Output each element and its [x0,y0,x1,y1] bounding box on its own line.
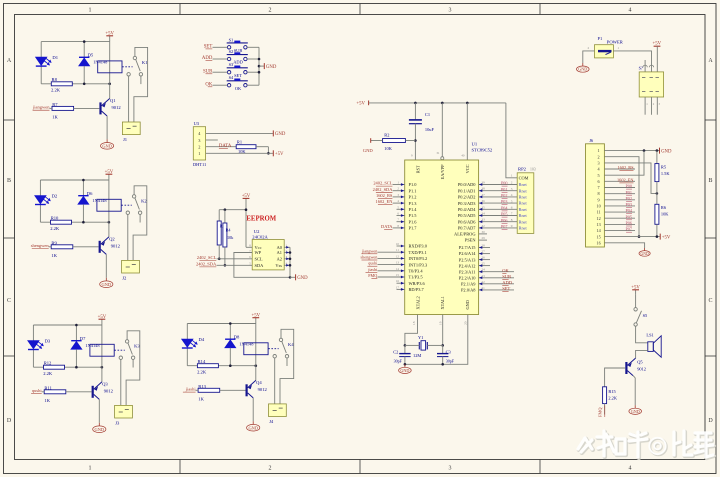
svg-text:jiashi: jiashi [185,387,196,392]
svg-text:17: 17 [396,285,400,289]
svg-text:P1.3: P1.3 [409,201,418,206]
resistor R1 10K [236,145,256,149]
svg-text:INT0/P3.2: INT0/P3.2 [409,256,428,261]
ground J6 pin1 [659,148,661,154]
svg-text:P0.3/AD3: P0.3/AD3 [458,201,476,206]
svg-text:J2: J2 [122,275,127,280]
svg-text:GND: GND [102,282,112,287]
svg-text:D7: D7 [80,336,86,341]
wire J6 pin2 to +5V bus [604,157,639,237]
svg-text:T1/P3.5: T1/P3.5 [409,275,424,280]
svg-text:D2: D2 [52,193,58,198]
svg-text:P2.7/A15: P2.7/A15 [459,245,477,250]
svg-text:GND: GND [266,65,277,70]
diode D5 1N4148 [83,42,85,58]
svg-text:1602_RS: 1602_RS [618,165,635,170]
svg-text:SUB: SUB [234,48,243,53]
wire J6 data pin 13 [604,223,635,225]
svg-text:R1: R1 [237,139,242,144]
svg-text:11: 11 [396,248,399,252]
svg-text:P2.4/A12: P2.4/A12 [459,263,476,268]
svg-text:5: 5 [598,173,600,178]
svg-text:INT1/P3.3: INT1/P3.3 [409,262,428,267]
wire XTAL1 [442,315,444,346]
svg-text:14: 14 [396,267,400,271]
svg-text:7: 7 [511,212,513,216]
wire switch to speaker [636,326,648,343]
svg-text:1: 1 [89,8,92,14]
power +5V EEPROM [245,198,247,203]
resistor R12 2.2K [44,365,65,369]
wire P1 pin2 to ground [583,51,595,63]
wire U2 right pins to ground bus [284,246,290,248]
svg-text:GND: GND [102,143,112,148]
svg-text:+5V: +5V [105,31,114,36]
svg-text:4: 4 [629,466,632,472]
diode D6 1N4148 [82,180,84,196]
button S1 (SET) [227,46,230,49]
LED D3 [28,341,39,349]
svg-text:PSEN: PSEN [465,238,477,243]
chip U2 24C02A [252,240,284,270]
svg-text:WP: WP [255,250,262,255]
wire J6 data pin 14 [604,230,635,232]
svg-text:GND: GND [95,427,105,432]
wire J6 pin1 ground row [604,150,659,152]
svg-text:P02: P02 [625,196,632,201]
svg-text:shengwen: shengwen [31,243,50,248]
svg-text:FMQ: FMQ [368,273,377,278]
svg-text:Q2: Q2 [109,237,115,242]
ground DHT11 [272,130,274,136]
wire RP2 COM feed [506,103,517,178]
svg-text:+5V: +5V [356,102,365,107]
svg-text:16: 16 [597,240,601,245]
svg-text:10: 10 [396,242,400,246]
wire XTAL2 [405,315,418,346]
wire bottom row [33,366,102,368]
svg-text:1N4148: 1N4148 [93,60,108,65]
svg-text:P2.1/A9: P2.1/A9 [461,282,476,287]
svg-text:P0.6/AD6: P0.6/AD6 [458,219,476,224]
wire base [66,391,92,393]
svg-text:4: 4 [629,8,632,14]
svg-text:GND: GND [400,368,409,373]
svg-text:10K: 10K [384,146,392,151]
svg-text:3: 3 [511,187,513,191]
svg-text:2: 2 [511,181,513,185]
svg-text:5: 5 [511,199,513,203]
resistor R4 10k [224,210,226,223]
svg-text:9012: 9012 [112,105,122,110]
svg-text:Rnet: Rnet [519,207,528,212]
svg-text:P2.6/A14: P2.6/A14 [459,251,477,256]
svg-text:EA/VPP: EA/VPP [440,164,445,179]
svg-text:13: 13 [597,222,601,227]
transistor Q5 9012 [625,362,627,374]
wire button row [213,58,228,60]
svg-text:P07: P07 [625,227,632,232]
switch S5 [635,294,637,307]
svg-text:LS1: LS1 [646,332,653,337]
resistor R8 2.2K [51,82,72,86]
svg-text:D4: D4 [199,337,205,342]
svg-text:19: 19 [439,321,443,325]
svg-text:11: 11 [597,210,601,215]
svg-text:1K: 1K [198,397,204,402]
wire J6 pin15 +5V row [604,236,659,238]
svg-text:2.2K: 2.2K [43,371,53,376]
svg-text:R5: R5 [661,164,667,169]
resistor R2 10K [383,139,406,143]
wire J6 data pin 10 [604,205,635,207]
button S4 (OK) [227,84,230,87]
svg-text:P03: P03 [501,199,508,204]
wire collector to ground [98,399,100,422]
svg-text:C1: C1 [425,112,430,117]
svg-text:S5: S5 [643,313,648,318]
resistor R9 1K [51,245,73,249]
svg-text:jiangwen: jiangwen [361,248,378,253]
svg-text:XTAL1: XTAL1 [440,296,445,309]
relay contacts K1 [133,56,136,59]
svg-text:P2.5/A13: P2.5/A13 [459,257,477,262]
svg-text:S?: S? [639,65,643,70]
svg-text:9: 9 [598,197,600,202]
svg-text:18: 18 [412,321,416,325]
svg-text:2: 2 [269,8,272,14]
svg-text:40: 40 [461,154,465,158]
svg-text:P02: P02 [501,193,508,198]
wire EA pin [441,103,443,157]
svg-text:10K: 10K [661,212,669,217]
svg-text:SET: SET [234,73,242,78]
resistor R10 2.2K [51,220,72,224]
relay coil K1 [98,61,122,73]
svg-text:P2.2/A10: P2.2/A10 [459,275,477,280]
svg-text:RST: RST [415,165,420,173]
svg-text:2: 2 [598,154,600,159]
svg-text:S2: S2 [229,49,234,54]
svg-text:shengwen: shengwen [361,255,379,260]
svg-text:J4: J4 [269,419,274,424]
wire U3 pin1 [206,152,273,154]
svg-text:POWER: POWER [607,40,624,45]
connector J4 [269,404,287,417]
svg-text:P00: P00 [625,184,632,189]
wire +5V rail jiangwen module [41,41,110,43]
svg-text:D1: D1 [52,55,58,60]
wire SCL row [217,258,253,260]
wire U2 Vcc [246,246,252,248]
net label 1602_EN [604,180,635,182]
capacitor C3 30pF [442,345,444,353]
svg-text:S1: S1 [229,37,234,42]
wire J6 pin5 RW ground [604,151,644,176]
svg-text:P2.0/A8: P2.0/A8 [461,288,476,293]
ground J6 pin16 [644,248,646,251]
svg-text:P03: P03 [625,202,632,207]
svg-text:7: 7 [598,185,600,190]
svg-text:Rnet: Rnet [519,195,528,200]
wire U2 WP loop [234,253,290,278]
resistor R3 10k [218,210,220,221]
svg-text:1N4148: 1N4148 [92,198,107,203]
svg-text:Rnet: Rnet [519,213,528,218]
svg-text:DATA: DATA [381,224,393,229]
svg-text:1602_RS: 1602_RS [376,193,393,198]
svg-text:1: 1 [511,174,513,178]
svg-text:+5V: +5V [631,285,640,290]
svg-text:Rnet: Rnet [519,219,528,224]
svg-text:1K: 1K [52,115,58,120]
svg-text:P05: P05 [625,214,632,219]
relay contacts K2 [132,195,135,198]
svg-text:Q1: Q1 [110,98,116,103]
ground EEPROM [295,274,297,280]
wire speaker to transistor [636,350,648,358]
svg-text:Y1: Y1 [418,335,423,340]
capacitor C2 30pF [404,345,406,353]
svg-text:1: 1 [89,466,92,472]
svg-text:P1.7: P1.7 [409,226,418,231]
transistor Q2 9012 [99,241,101,253]
wire collector to ground [252,398,254,421]
svg-text:STC89C52: STC89C52 [472,148,493,153]
wire J6 data pin 11 [604,211,635,213]
wire collector to ground [633,376,635,378]
button S3 (SUB) [227,71,230,74]
svg-text:P0.4/AD4: P0.4/AD4 [458,207,476,212]
svg-text:S4: S4 [229,75,234,80]
svg-text:C: C [7,298,11,304]
wire LED branch [39,180,41,196]
svg-text:D8: D8 [234,335,240,340]
svg-text:10k: 10k [227,235,234,240]
svg-text:OK: OK [502,268,509,273]
svg-text:P1.2: P1.2 [409,195,417,200]
connector J1 [122,122,140,135]
svg-text:P1.6: P1.6 [409,219,418,224]
wire coil stem [108,180,110,222]
resistor network RP2 103 [517,173,534,234]
resistor R5 1.5K [656,151,658,164]
svg-text:A: A [7,58,12,64]
svg-text:U3: U3 [194,121,200,126]
svg-text:3: 3 [598,161,600,166]
power +5V DHT11 [272,150,274,156]
svg-text:SUB: SUB [502,274,511,279]
svg-text:2.2K: 2.2K [608,396,617,401]
relay contacts K3 [125,340,128,343]
svg-text:P1.5: P1.5 [409,213,418,218]
wire LED branch [186,324,188,340]
wire U3 pin3 stub [206,139,218,141]
svg-text:P2.3/A11: P2.3/A11 [459,269,476,274]
svg-text:SET: SET [502,286,510,291]
svg-text:ADD: ADD [502,280,512,285]
svg-text:Q5: Q5 [637,360,643,365]
svg-text:4: 4 [511,193,513,197]
wire P1 pin1 to switch [613,51,651,72]
svg-text:8: 8 [598,191,600,196]
svg-text:Q4: Q4 [256,380,262,385]
connector U3 DHT11 [193,127,205,160]
svg-text:P04: P04 [501,205,508,210]
svg-text:R14: R14 [198,359,206,364]
svg-text:P0.5/AD5: P0.5/AD5 [458,213,476,218]
ground buttons [263,63,265,69]
wire base [74,107,100,109]
svg-text:GND: GND [363,148,374,153]
svg-text:Rnet: Rnet [519,226,528,231]
wire J6 data pin 9 [604,199,635,201]
svg-text:P04: P04 [625,208,632,213]
svg-text:1N4148: 1N4148 [85,343,100,348]
svg-text:15: 15 [597,234,601,239]
svg-text:P01: P01 [501,187,508,192]
svg-text:+5V: +5V [242,194,251,199]
svg-text:R8: R8 [52,77,58,82]
transistor Q4 9012 [246,384,248,396]
svg-text:C: C [708,298,712,304]
wire VCC pin [466,103,468,160]
ground R2 [370,138,372,143]
svg-text:XTAL2: XTAL2 [415,296,420,309]
transistor Q1 9012 [99,102,101,114]
svg-text:1K: 1K [44,398,50,403]
wire bottom row [40,221,109,223]
svg-text:9012: 9012 [111,243,121,248]
svg-text:10: 10 [597,204,601,209]
svg-text:1K: 1K [51,253,57,258]
svg-text:2402_SCL: 2402_SCL [197,255,217,260]
svg-text:ALE/PROG: ALE/PROG [454,232,476,237]
wire +5V rail jiashi module [187,323,256,325]
svg-text:RXD/P3.0: RXD/P3.0 [409,244,428,249]
svg-text:6: 6 [511,206,513,210]
wire LED branch [40,42,42,58]
svg-text:2.2K: 2.2K [51,88,61,93]
svg-text:A: A [708,58,713,64]
wire U3 pin2 DATA [206,146,237,148]
svg-text:A2: A2 [277,256,282,261]
svg-text:2402_SCL: 2402_SCL [373,181,392,186]
svg-text:J1: J1 [123,137,128,142]
wire J6 data pin 8 [604,193,635,195]
svg-text:R2: R2 [384,133,389,138]
svg-text:R15: R15 [608,389,616,394]
svg-text:D3: D3 [45,338,51,343]
svg-text:S3: S3 [229,62,234,67]
svg-text:jiangwen: jiangwen [32,105,50,110]
diode D7 1N4148 [75,325,77,341]
ground power [582,63,584,66]
wire button ground bus [258,47,260,85]
diode D8 1N4148 [229,324,231,340]
svg-text:D6: D6 [87,191,93,196]
svg-text:J3: J3 [115,420,120,425]
chip U1 STC89C52 [405,160,479,315]
svg-text:29: 29 [482,236,486,240]
wire SDA row [217,264,253,266]
svg-text:1: 1 [198,151,200,156]
svg-text:GND: GND [248,425,258,430]
svg-text:VCC: VCC [465,164,470,173]
svg-text:C3: C3 [446,349,452,354]
power +5V jiashi module [255,318,257,323]
relay contacts K4 [279,338,282,341]
svg-text:GND: GND [661,149,672,154]
power +5V J6 [659,234,661,240]
svg-text:1602_EN: 1602_EN [376,199,394,204]
svg-text:15: 15 [396,273,400,277]
svg-text:1602_EN: 1602_EN [617,177,633,182]
svg-text:+5V: +5V [662,235,671,240]
wire base [73,246,99,248]
svg-text:T0/P3.4: T0/P3.4 [409,269,424,274]
svg-text:U2: U2 [254,229,260,234]
svg-text:+5V: +5V [105,170,114,175]
svg-text:C2: C2 [393,349,398,354]
relay coil K4 [244,343,268,355]
svg-text:P1.0: P1.0 [409,182,418,187]
svg-text:16: 16 [396,279,400,283]
svg-text:GND: GND [465,300,470,309]
wire bottom row [41,83,110,85]
svg-text:P01: P01 [625,190,632,195]
wire +5V rail qushi module [33,324,102,326]
svg-text:2402_SDA: 2402_SDA [373,187,394,192]
svg-text:30: 30 [482,230,486,234]
LED D1 [36,57,47,65]
svg-text:D5: D5 [88,53,94,58]
svg-text:U1: U1 [472,141,478,146]
resistor R15 2.2K [603,387,607,404]
wire +5V rail shengwen module [40,179,109,181]
svg-text:30pF: 30pF [394,358,403,363]
svg-text:12: 12 [597,216,601,221]
svg-text:8: 8 [511,218,513,222]
svg-text:Vss: Vss [275,263,282,268]
wire LED branch [32,325,34,341]
svg-text:103: 103 [530,168,536,172]
svg-text:P00: P00 [501,181,508,186]
button S2 (ADD) [227,57,230,60]
relay coil K3 [90,344,114,356]
wire button row [213,46,228,48]
svg-text:2: 2 [588,46,590,50]
svg-text:P06: P06 [501,218,508,223]
svg-text:R9: R9 [51,240,57,245]
svg-text:OK: OK [235,86,242,91]
svg-text:9012: 9012 [104,388,114,393]
svg-text:13: 13 [396,261,400,265]
power +5V jiangwen module [109,36,111,41]
svg-text:R12: R12 [44,360,52,365]
svg-text:R10: R10 [51,215,59,220]
resistor R13 1K [198,388,220,392]
svg-text:Rnet: Rnet [519,201,528,206]
wire crystal ground rail [405,315,468,365]
power +5V shengwen module [108,174,110,179]
svg-text:GND: GND [275,132,286,137]
svg-text:SCL: SCL [255,256,263,261]
wire collector to ground [106,116,108,139]
svg-text:+5V: +5V [252,313,261,318]
watermark zhihu [578,431,714,458]
ground shengwen module [105,278,107,281]
